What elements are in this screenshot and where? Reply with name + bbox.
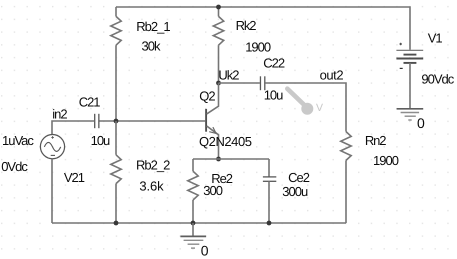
svg-text:300: 300 xyxy=(203,183,222,198)
svg-text:1uVac: 1uVac xyxy=(2,133,34,148)
wire Rk2 top lead xyxy=(218,7,220,16)
junction Re2 / rail / ground xyxy=(191,221,196,226)
svg-text:30k: 30k xyxy=(142,39,161,54)
junction Uk2 xyxy=(216,81,221,86)
svg-text:Ce2: Ce2 xyxy=(288,170,310,185)
wire bottom rail xyxy=(52,222,346,224)
svg-text:0: 0 xyxy=(201,242,209,258)
resistor Rk2 xyxy=(213,16,223,45)
svg-text:C21: C21 xyxy=(79,94,101,109)
svg-text:0Vdc: 0Vdc xyxy=(1,159,28,174)
svg-text:10u: 10u xyxy=(264,88,283,103)
svg-text:Rk2: Rk2 xyxy=(236,18,257,33)
wire Rb2_2 top lead from base junction xyxy=(115,121,117,155)
wire V21 bottom to rail xyxy=(51,159,53,223)
svg-text:out2: out2 xyxy=(320,68,344,83)
wire Uk2 to C22 xyxy=(219,82,260,84)
junction top rail / Rk2 xyxy=(216,5,221,10)
junction emitter node xyxy=(216,157,221,162)
wire Rk2 bottom to Uk2 node xyxy=(218,45,220,83)
battery V1 xyxy=(396,43,423,69)
wire Rn2 bottom to rail xyxy=(345,160,347,223)
svg-text:3.6k: 3.6k xyxy=(139,178,164,193)
svg-text:90Vdc: 90Vdc xyxy=(421,71,454,86)
wire Rb2_2 bottom to rail xyxy=(115,184,117,223)
ground 0 at bottom rail xyxy=(180,223,206,248)
wire Ce2 bottom to rail xyxy=(268,181,270,223)
ground 0 at V1 xyxy=(397,109,424,120)
capacitor C22 xyxy=(260,76,264,90)
svg-text:V21: V21 xyxy=(64,170,85,185)
wire Re2 bottom to rail xyxy=(192,200,194,223)
wire C22 to out2 corner down to Rn2 xyxy=(265,83,346,132)
junction Ce2 / rail xyxy=(267,221,272,226)
resistor Rn2 xyxy=(341,132,351,161)
svg-text:Rb2_2: Rb2_2 xyxy=(136,157,170,172)
svg-text:C22: C22 xyxy=(263,55,285,70)
svg-text:Q2N2405: Q2N2405 xyxy=(199,134,252,149)
resistor Rb2_2 xyxy=(111,155,121,184)
wire in2 node to C21 xyxy=(52,121,94,135)
svg-text:in2: in2 xyxy=(52,106,67,121)
svg-text:V: V xyxy=(316,102,323,114)
resistor Re2 xyxy=(188,171,198,200)
svg-text:Rb2_1: Rb2_1 xyxy=(136,19,170,34)
transistor Q2 xyxy=(206,83,218,159)
svg-text:1900: 1900 xyxy=(373,153,399,168)
resistor Rb2_1 xyxy=(111,16,121,45)
wire Rb2 column to base junction xyxy=(115,45,117,121)
svg-text:10u: 10u xyxy=(91,133,110,148)
wire base from C21 to Q2 xyxy=(99,120,205,122)
AC source V21 xyxy=(40,135,64,159)
capacitor C21 xyxy=(95,114,99,128)
wire Re2 top lead xyxy=(192,159,194,171)
svg-text:Uk2: Uk2 xyxy=(218,68,239,83)
svg-text:Q2: Q2 xyxy=(199,88,215,103)
junction base / Rb2 divider xyxy=(114,119,119,124)
wire Ce2 top lead xyxy=(268,159,270,177)
wire Rb2_1 top lead xyxy=(115,7,117,16)
svg-text:V1: V1 xyxy=(428,31,443,46)
capacitor Ce2 xyxy=(263,177,276,181)
voltage probe marker (grey) xyxy=(287,89,323,115)
svg-text:1900: 1900 xyxy=(245,40,271,55)
svg-text:Rn2: Rn2 xyxy=(365,133,386,148)
svg-text:300u: 300u xyxy=(282,184,308,199)
wire V1 negative to ground xyxy=(409,63,411,109)
wire emitter row Re2 to Ce2 xyxy=(193,158,269,160)
junction Rb2_2 / rail xyxy=(114,221,119,226)
wire top rail to V1 positive xyxy=(116,7,410,50)
svg-text:0: 0 xyxy=(417,115,425,131)
